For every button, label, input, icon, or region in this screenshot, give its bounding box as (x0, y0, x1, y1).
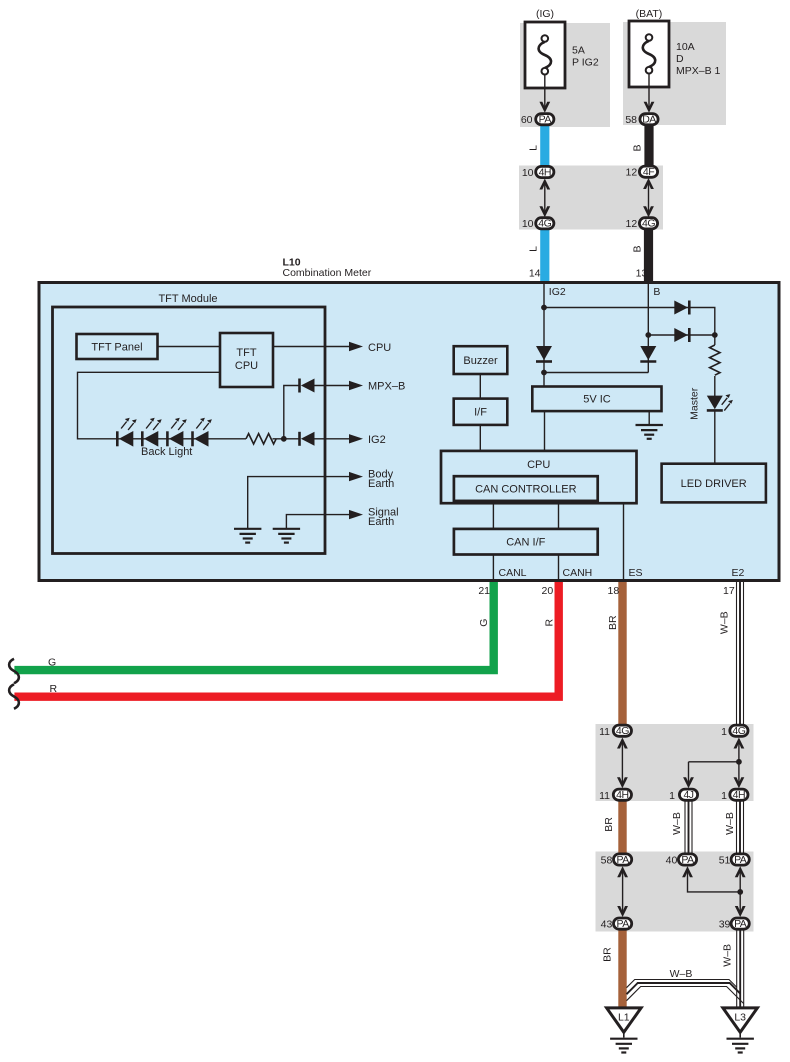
svg-text:12: 12 (626, 218, 638, 230)
svg-text:(IG): (IG) (536, 8, 554, 20)
svg-text:4G: 4G (642, 218, 655, 230)
svg-text:43: 43 (601, 919, 613, 931)
svg-text:L: L (528, 246, 540, 252)
svg-text:4F: 4F (643, 166, 654, 178)
svg-text:Combination Meter: Combination Meter (283, 267, 372, 279)
svg-text:14: 14 (529, 268, 541, 280)
svg-text:L1: L1 (618, 1011, 630, 1023)
svg-text:13: 13 (636, 268, 648, 280)
svg-text:E2: E2 (732, 567, 745, 579)
svg-text:58: 58 (601, 855, 613, 867)
svg-text:40: 40 (666, 855, 678, 867)
svg-text:11: 11 (599, 790, 610, 802)
svg-text:B: B (632, 245, 644, 252)
svg-text:Back Light: Back Light (141, 446, 192, 458)
svg-text:60: 60 (521, 114, 533, 126)
svg-text:1: 1 (721, 726, 727, 738)
svg-text:10: 10 (522, 218, 534, 230)
svg-text:4G: 4G (616, 725, 629, 737)
svg-text:58: 58 (625, 114, 637, 126)
svg-text:P IG2: P IG2 (572, 57, 599, 69)
svg-text:IG2: IG2 (368, 434, 386, 446)
svg-text:W–B: W–B (722, 944, 734, 967)
svg-text:ES: ES (629, 567, 643, 579)
svg-text:IG2: IG2 (549, 286, 566, 298)
svg-text:1: 1 (721, 790, 727, 802)
svg-text:R: R (50, 683, 58, 695)
svg-text:W–B: W–B (724, 812, 736, 835)
svg-text:B: B (632, 144, 644, 151)
svg-text:MPX–B 1: MPX–B 1 (676, 65, 721, 77)
svg-text:DA: DA (642, 114, 656, 126)
svg-text:4H: 4H (616, 789, 628, 801)
svg-text:PA: PA (616, 918, 629, 930)
svg-text:39: 39 (719, 919, 731, 931)
svg-text:I/F: I/F (474, 407, 487, 419)
svg-text:18: 18 (608, 585, 620, 597)
svg-text:21: 21 (478, 585, 490, 597)
svg-text:TFT Module: TFT Module (158, 293, 217, 305)
svg-text:4G: 4G (732, 725, 745, 737)
svg-text:Master: Master (689, 387, 701, 420)
svg-text:4J: 4J (683, 789, 693, 801)
svg-text:20: 20 (542, 585, 554, 597)
svg-text:W–B: W–B (671, 812, 683, 835)
svg-text:CAN I/F: CAN I/F (506, 537, 545, 549)
svg-text:L: L (528, 145, 540, 151)
svg-text:BR: BR (601, 947, 613, 962)
svg-text:G: G (48, 657, 56, 669)
svg-text:PA: PA (734, 854, 747, 866)
svg-text:11: 11 (599, 726, 610, 738)
svg-text:10: 10 (522, 167, 534, 179)
svg-text:(BAT): (BAT) (636, 8, 663, 20)
svg-text:TFT: TFT (236, 347, 256, 359)
svg-text:B: B (653, 286, 660, 298)
svg-text:W–B: W–B (719, 611, 731, 634)
svg-text:4H: 4H (539, 166, 551, 178)
svg-text:CPU: CPU (235, 360, 258, 372)
svg-text:CAN CONTROLLER: CAN CONTROLLER (475, 484, 577, 496)
svg-text:5V IC: 5V IC (583, 394, 611, 406)
svg-text:CANL: CANL (499, 567, 527, 579)
svg-text:W–B: W–B (670, 968, 693, 980)
svg-text:Earth: Earth (368, 478, 394, 490)
svg-text:10A: 10A (676, 41, 695, 53)
svg-text:PA: PA (734, 918, 747, 930)
svg-text:MPX–B: MPX–B (368, 381, 405, 393)
svg-text:L3: L3 (734, 1011, 746, 1023)
svg-text:51: 51 (719, 855, 731, 867)
svg-text:PA: PA (539, 114, 552, 126)
svg-text:12: 12 (626, 167, 638, 179)
svg-text:PA: PA (681, 854, 694, 866)
svg-text:TFT Panel: TFT Panel (91, 342, 142, 354)
svg-text:Earth: Earth (368, 516, 394, 528)
svg-text:LED DRIVER: LED DRIVER (681, 478, 747, 490)
svg-text:PA: PA (616, 854, 629, 866)
svg-text:R: R (543, 618, 555, 626)
svg-text:1: 1 (669, 790, 675, 802)
svg-text:G: G (478, 619, 490, 627)
svg-text:CPU: CPU (368, 342, 391, 354)
svg-text:Buzzer: Buzzer (463, 355, 498, 367)
svg-text:5A: 5A (572, 45, 585, 57)
svg-text:D: D (676, 53, 684, 65)
svg-text:4H: 4H (733, 789, 745, 801)
svg-text:BR: BR (607, 615, 619, 630)
svg-text:CANH: CANH (563, 567, 593, 579)
svg-text:4G: 4G (538, 218, 551, 230)
svg-text:CPU: CPU (527, 459, 550, 471)
svg-text:17: 17 (723, 585, 735, 597)
svg-text:BR: BR (603, 817, 615, 832)
